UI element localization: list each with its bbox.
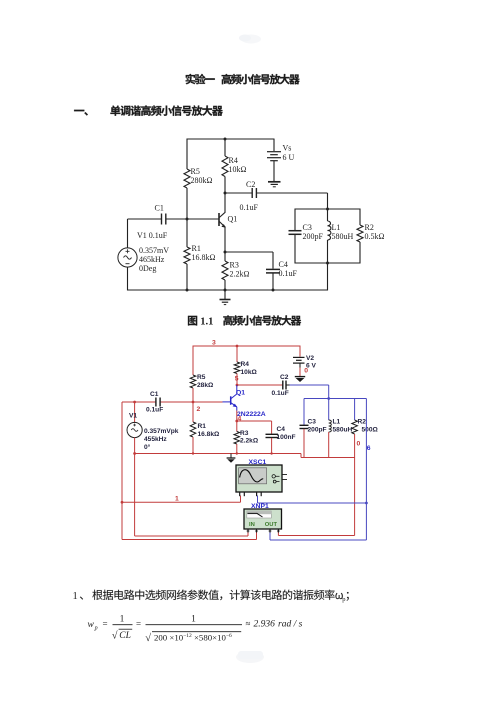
wire: R3 top lead xyxy=(236,421,238,432)
wire: R4 top lead xyxy=(236,346,238,362)
svg-text:V1 0.1uF: V1 0.1uF xyxy=(137,231,168,240)
wire: Vs top lead xyxy=(273,139,275,151)
wire: C4 bottom lead xyxy=(271,438,273,454)
wire: C2 to tank feed (blue) xyxy=(290,384,329,386)
inductor L1 xyxy=(329,420,332,432)
formula: resonant frequency wp = 1/sqrt(CL) xyxy=(88,615,303,645)
node: collector junction dot xyxy=(236,384,239,387)
resistor R2 xyxy=(352,420,358,434)
wire: tank bottom rail (red) xyxy=(301,457,355,459)
capacitor C2 plates xyxy=(251,188,253,198)
svg-text:L1: L1 xyxy=(333,419,341,426)
wire: C3 top lead (blue) xyxy=(303,399,305,425)
wire: L1 bottom lead xyxy=(327,240,329,263)
wire: node4 to C4 (red) xyxy=(237,420,272,422)
wire: Vs to ground xyxy=(273,161,275,182)
svg-text:200 ×10−12 ×580×10−6: 200 ×10−12 ×580×10−6 xyxy=(154,632,232,642)
resistor R4 xyxy=(222,156,228,177)
wire: tank feed vertical xyxy=(327,193,329,209)
svg-text:0°: 0° xyxy=(144,443,151,451)
wire: R2 top lead xyxy=(359,209,361,226)
svg-text:16.8kΩ: 16.8kΩ xyxy=(198,431,221,438)
svg-text:2.936: 2.936 xyxy=(254,620,276,630)
faint watermark smudge bottom xyxy=(236,651,264,663)
wire: XNP1 OUT+ stub (blue) xyxy=(269,532,271,541)
svg-text:455kHz: 455kHz xyxy=(144,436,167,443)
svg-text:p: p xyxy=(342,596,345,603)
transistor Q1 base bar xyxy=(218,213,220,226)
svg-text:√: √ xyxy=(145,632,151,644)
inductor L1 xyxy=(328,221,331,240)
wire: XNP1 OUT- stub (red) xyxy=(277,532,279,536)
node: node1 scope tap junction dot xyxy=(121,501,124,504)
wire: XNP1 IN+ stub (red) xyxy=(247,532,249,537)
node: tank top junction dot (blue) xyxy=(327,397,330,400)
wire: R5 top lead xyxy=(186,139,188,170)
svg-text:C4: C4 xyxy=(277,426,286,433)
source V1 sine mark xyxy=(131,429,138,432)
source V1 minus sign xyxy=(126,263,130,265)
figure caption 图1.1 高频小信号放大器 xyxy=(188,315,301,325)
svg-text:w: w xyxy=(88,620,95,630)
wire: XNP1 IN- stub (red) xyxy=(256,532,258,540)
svg-text:5: 5 xyxy=(235,376,239,383)
node: tank bottom junction dot xyxy=(326,262,329,265)
wire: node 0 ground rail (red) xyxy=(135,453,301,455)
node: scope B tap junction dot (blue) xyxy=(365,502,368,505)
oscilloscope XSC1 probe icons xyxy=(272,475,275,478)
svg-text:Vs: Vs xyxy=(283,144,292,153)
wire: node1 bottom rail (red) xyxy=(122,539,257,541)
wire: C2 to tank xyxy=(256,192,327,194)
svg-text:0.357mVpk: 0.357mVpk xyxy=(144,428,179,435)
node: R4 top junction dot xyxy=(236,345,239,348)
wire: R3 top lead xyxy=(224,252,226,261)
svg-text:≈: ≈ xyxy=(246,619,251,629)
wire: C3 bottom lead xyxy=(294,235,296,264)
question text 根据电路中选频网络参数值计算该电路的谐振频率 xyxy=(80,590,349,601)
wire: ground bottom rail xyxy=(128,289,328,291)
svg-text:0: 0 xyxy=(357,441,361,448)
svg-text:2.2kΩ: 2.2kΩ xyxy=(240,438,259,445)
wire: R5 bottom to base node xyxy=(192,388,194,403)
wire: V2 bottom stub xyxy=(299,364,301,368)
svg-text:rad / s: rad / s xyxy=(278,620,303,630)
svg-text:XNP1: XNP1 xyxy=(251,503,269,510)
svg-text:R2: R2 xyxy=(365,223,374,232)
wire: L1 bottom lead (red) xyxy=(328,432,330,458)
resistor R5 xyxy=(184,169,190,188)
wire: V1 bottom lead xyxy=(134,438,136,454)
svg-text:0.5kΩ: 0.5kΩ xyxy=(365,232,385,241)
capacitor C2 plates xyxy=(282,381,284,390)
wire: C2 out stub (black) xyxy=(286,384,289,386)
svg-text:C4: C4 xyxy=(279,260,288,269)
svg-text:1: 1 xyxy=(191,615,196,625)
wire: R2 bottom lead (red) xyxy=(354,434,356,458)
node: V1 ground junction dot xyxy=(133,452,136,455)
svg-text:16.8kΩ: 16.8kΩ xyxy=(192,253,216,262)
node: base junction dot xyxy=(186,218,189,221)
svg-text:R4: R4 xyxy=(241,361,250,368)
resistor R3 xyxy=(234,432,240,445)
ground symbol under R3 xyxy=(220,299,231,301)
node: R1 bottom junction dot xyxy=(186,289,189,292)
svg-text:Q1: Q1 xyxy=(228,215,238,224)
node: emitter junction dot xyxy=(224,251,227,254)
svg-text:2N2222A: 2N2222A xyxy=(237,411,266,418)
ground symbol under Vs xyxy=(268,181,281,183)
capacitor C3 plates xyxy=(289,230,302,232)
wire: V1 to C1 xyxy=(128,218,162,220)
wire: R4 bottom lead xyxy=(236,374,238,386)
capacitor C1 plates xyxy=(161,214,163,225)
wire: R5 top lead xyxy=(192,346,194,376)
wire: R3 bottom lead xyxy=(236,444,238,454)
wire: C4 top lead xyxy=(272,252,274,269)
svg-text:0.357mV: 0.357mV xyxy=(139,246,169,255)
svg-text:0.1uF: 0.1uF xyxy=(146,406,163,413)
capacitor C1 plates xyxy=(155,398,157,407)
wire: R2 top lead (blue) xyxy=(354,399,356,421)
svg-text:1: 1 xyxy=(73,591,78,602)
svg-text:R2: R2 xyxy=(358,419,367,426)
svg-text:10kΩ: 10kΩ xyxy=(241,369,258,376)
wire: emitter to node xyxy=(224,228,226,253)
svg-text:28kΩ: 28kΩ xyxy=(197,382,214,389)
wire: collector lead xyxy=(224,193,226,212)
svg-text:Q1: Q1 xyxy=(236,389,245,396)
svg-text:1.1: 1.1 xyxy=(200,316,213,327)
wire: tank top rail node 6 (blue) xyxy=(304,398,366,400)
resistor R4 xyxy=(234,362,240,374)
source V1 circle xyxy=(118,248,137,267)
transistor Q1 emitter arrow (blue) xyxy=(233,404,238,408)
svg-text:R3: R3 xyxy=(240,430,249,437)
svg-text:0.1uF: 0.1uF xyxy=(240,203,259,212)
source V1 plus sign xyxy=(126,250,130,252)
wire: node 0 to XNP1 OUT- (red) xyxy=(278,535,354,537)
svg-text:280kΩ: 280kΩ xyxy=(191,176,213,185)
wire: node 5 to C2 (red) xyxy=(237,384,282,386)
node: Vcc/R4 junction dot xyxy=(224,138,227,141)
wire: emitter to node 4 (red) xyxy=(236,411,238,422)
circuit 1: single-tuned small-signal amplifier schematic xyxy=(118,138,385,305)
svg-text:V2: V2 xyxy=(306,355,314,362)
svg-text:IN: IN xyxy=(249,522,255,528)
node: tank top junction dot xyxy=(326,208,329,211)
svg-text:3: 3 xyxy=(212,340,216,347)
svg-text:V1: V1 xyxy=(129,413,137,420)
svg-text:465kHz: 465kHz xyxy=(139,255,165,264)
wire: R2 bottom lead xyxy=(359,242,361,264)
wire: R4 to collector node xyxy=(224,177,226,194)
node: R3 bottom junction dot xyxy=(224,289,227,292)
wire: tank top rail xyxy=(295,208,360,210)
svg-text:L1: L1 xyxy=(332,223,341,232)
wire: emitter node to C4 xyxy=(225,251,273,253)
wire: V1 bottom lead xyxy=(127,267,129,290)
transistor Q1 base lead (blue) xyxy=(223,401,231,403)
node: collector junction dot xyxy=(224,192,227,195)
svg-text:R5: R5 xyxy=(191,167,200,176)
circuit 2: Multisim simulation schematic xyxy=(121,340,379,541)
resistor R3 xyxy=(222,261,228,280)
node: V1 top junction dot xyxy=(133,401,136,404)
wire: node 2 base wire (red) xyxy=(122,401,155,403)
capacitor C4 plates xyxy=(266,268,280,270)
node: R3 bottom rail dot xyxy=(236,452,238,454)
ground symbol on rail xyxy=(230,454,232,458)
wire: C3 top lead xyxy=(294,209,296,231)
wire: rail step down (red) xyxy=(300,454,302,458)
wire: Vcc top rail xyxy=(187,138,275,140)
node: emitter junction dot xyxy=(235,420,238,423)
wire: collector node to C2 xyxy=(225,192,252,194)
svg-text:580uH: 580uH xyxy=(333,427,353,434)
svg-text:200pF: 200pF xyxy=(308,427,327,434)
wire: C1 to base xyxy=(166,218,219,220)
section heading 一、单调谐高频小信号放大器 xyxy=(74,105,223,115)
oscilloscope XSC1 screen xyxy=(239,468,267,484)
wire: tank feed vertical (blue) xyxy=(328,385,330,420)
svg-text:R4: R4 xyxy=(229,156,238,165)
svg-text:6: 6 xyxy=(367,445,371,452)
battery Vs plates xyxy=(267,151,281,153)
node: C4 bottom junction dot xyxy=(272,289,275,292)
svg-text:10kΩ: 10kΩ xyxy=(229,165,247,174)
svg-text:C1: C1 xyxy=(150,391,159,398)
wire: node 0 down right side (red) xyxy=(354,458,356,536)
source V1 sine squiggle xyxy=(124,256,132,259)
wire: node 1 to scope A (red) xyxy=(122,501,241,503)
wire: scope B channel (blue) xyxy=(257,496,259,504)
oscilloscope XSC1 ext pins xyxy=(282,474,287,476)
wire: node 6 bottom to XNP1 OUT+ (blue) xyxy=(270,539,366,541)
resistor R1 xyxy=(190,422,196,437)
capacitor C4 plates xyxy=(266,433,279,435)
svg-text:√: √ xyxy=(112,630,118,642)
oscilloscope XSC1 body xyxy=(236,465,282,492)
svg-text:0: 0 xyxy=(304,368,308,375)
bode plotter XNP1 response curve xyxy=(248,513,263,517)
resistor R5 xyxy=(190,375,196,388)
svg-text:580uH: 580uH xyxy=(332,232,354,241)
svg-text:0.1uF: 0.1uF xyxy=(272,390,289,397)
wire: ground stub below rail xyxy=(224,290,226,299)
wire: node 3 Vcc rail (red) xyxy=(193,345,300,347)
transistor Q1 collector lead (blue) xyxy=(236,385,238,394)
wire: R1 top lead xyxy=(192,402,194,422)
svg-text:R1: R1 xyxy=(198,423,207,430)
faint watermark smudge top xyxy=(241,35,261,44)
svg-text:0Deg: 0Deg xyxy=(139,264,156,273)
wire: R4 top lead xyxy=(224,139,226,156)
document title 实验一 高频小信号放大器 xyxy=(186,74,300,84)
wire: node 6 right vertical (blue) xyxy=(365,399,367,541)
svg-text:C3: C3 xyxy=(308,419,317,426)
source V1 circle xyxy=(127,422,142,437)
svg-text:2.2kΩ: 2.2kΩ xyxy=(230,270,250,279)
node: base junction dot xyxy=(192,401,195,404)
wire: V2 to ground (red) xyxy=(299,368,301,377)
transistor Q1 base bar (blue) xyxy=(230,396,232,405)
battery V2 plates xyxy=(293,356,305,358)
wire: L1 top lead xyxy=(327,209,329,221)
svg-text:6 U: 6 U xyxy=(283,153,295,162)
wire: V2 top corner xyxy=(299,346,301,357)
svg-text:C2: C2 xyxy=(246,180,255,189)
svg-text:200pF: 200pF xyxy=(303,232,324,241)
source V1 plus xyxy=(133,424,136,426)
svg-text:1: 1 xyxy=(120,615,125,625)
wire: C4 bottom lead xyxy=(272,274,274,291)
svg-text:1: 1 xyxy=(175,496,179,503)
svg-text:=: = xyxy=(136,619,141,629)
svg-text:R5: R5 xyxy=(197,374,206,381)
svg-text:C1: C1 xyxy=(155,204,164,213)
wire: tank to ground rail xyxy=(327,263,329,291)
resistor R2 xyxy=(357,225,363,242)
transistor Q1 collector lead xyxy=(219,212,225,217)
svg-text:C3: C3 xyxy=(303,223,312,232)
svg-text:0.1uF: 0.1uF xyxy=(279,269,298,278)
wire: R5 to base node xyxy=(186,188,188,247)
oscilloscope XSC1 terminals xyxy=(239,492,241,496)
capacitor C3 plates xyxy=(300,424,309,426)
ground symbol under V2 xyxy=(295,376,305,378)
svg-text:2: 2 xyxy=(197,406,201,413)
node: C4 bottom rail dot xyxy=(270,452,272,454)
wire: V1 top lead xyxy=(127,219,129,248)
svg-text:C2: C2 xyxy=(280,374,289,381)
wire: R1 bottom lead xyxy=(186,264,188,291)
wire: node0 to XNP1 IN+ (red) xyxy=(134,454,136,537)
svg-text:500Ω: 500Ω xyxy=(362,427,379,434)
resistor R1 xyxy=(184,247,190,264)
bode plotter XNP1 body xyxy=(244,509,282,529)
svg-text:OUT: OUT xyxy=(265,522,278,528)
wire: V1 top lead xyxy=(134,402,136,423)
svg-text:CL: CL xyxy=(119,631,131,641)
wire: left vertical node1 (red) xyxy=(121,402,123,540)
wire: C4 top lead xyxy=(271,421,273,434)
svg-text:p: p xyxy=(94,626,98,632)
node: R1 bottom rail dot xyxy=(192,452,194,454)
wire: R3 bottom lead xyxy=(224,280,226,290)
svg-text:XSC1: XSC1 xyxy=(249,459,267,466)
wire: tank bottom rail xyxy=(295,262,360,264)
svg-text:=: = xyxy=(103,619,108,629)
bode plotter XNP1 screen xyxy=(247,511,271,518)
wire: C3 bottom lead (red) xyxy=(303,429,305,458)
transistor Q1 emitter arrow xyxy=(221,224,225,228)
bode plotter XNP1 terminals xyxy=(247,529,249,533)
oscilloscope XSC1 sine trace xyxy=(240,470,264,482)
transistor Q1 emitter lead (blue) xyxy=(231,403,237,407)
svg-text:R1: R1 xyxy=(192,244,201,253)
svg-text:R3: R3 xyxy=(230,261,239,270)
wire: R1 bottom lead xyxy=(192,437,194,454)
wire: scope A stub (red) xyxy=(240,496,242,503)
transistor Q1 emitter lead xyxy=(219,222,225,228)
svg-text:100nF: 100nF xyxy=(277,434,296,441)
